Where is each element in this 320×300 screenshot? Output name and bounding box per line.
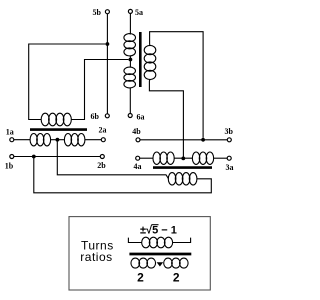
wire: T2 secondary top lead right and down to 4b-3b node (150, 32, 204, 138)
transformer T1 secondary winding left half (3 turns) (30, 134, 51, 146)
legend radical overbar (152, 224, 159, 226)
legend box frame (69, 217, 210, 290)
terminal 6a (128, 114, 132, 118)
terminal 4a (136, 156, 140, 160)
terminal 3b (227, 138, 231, 142)
svg-text:5a: 5a (135, 8, 143, 17)
svg-text:±√5 − 1: ±√5 − 1 (140, 224, 177, 236)
transformer T3 primary winding left half (3 turns) (153, 152, 174, 164)
legend primary winding (4 turns) (142, 237, 173, 248)
transformer T2 winding 5a-6a upper half (3 turns) (124, 34, 136, 56)
legend primary winding lead hooks (128, 238, 142, 243)
transformer T2 winding 5a-6a lower half (3 turns) (124, 67, 136, 88)
terminal 4b (136, 138, 140, 142)
junction: T2 winding centre tap (129, 58, 133, 62)
terminal 2b (100, 155, 104, 159)
legend secondary winding left half (3 turns) (131, 258, 156, 268)
svg-text:1b: 1b (5, 162, 14, 171)
wire: T1 secondary tap segments (50, 139, 64, 141)
svg-text:2a: 2a (99, 126, 107, 135)
wire: T1 primary right lead up to winding 5-6 centre tap (71, 60, 128, 120)
svg-text:4b: 4b (132, 127, 141, 136)
svg-text:1a: 1a (6, 128, 14, 137)
junction: T1 secondary centre tap (56, 138, 60, 142)
wire: terminal 4a to T3 primary (140, 157, 154, 159)
transformer T1 secondary winding right half (3 turns) (64, 134, 85, 146)
junction: node on 5b-6b wire (106, 42, 110, 46)
svg-text:2: 2 (173, 270, 180, 284)
transformer T1 primary winding (4 turns) (41, 113, 71, 126)
transformer T3 primary winding right half (3 turns) (192, 152, 213, 164)
junction: T3 primary centre tap (181, 157, 185, 161)
terminal 2a (101, 138, 105, 142)
transformer T3 tertiary winding (4 turns) (168, 173, 197, 185)
legend secondary winding right half (3 turns) (164, 258, 188, 268)
transformer T2 core (139, 32, 142, 87)
terminal 5a (128, 9, 132, 13)
legend core (129, 253, 191, 256)
wire: T2 winding down to terminal 6a (129, 88, 131, 114)
wire: T2 secondary bottom lead right and down to T3 centre tap (149, 79, 183, 158)
junction: node on 1b-2b wire (32, 155, 36, 159)
terminal 3a (227, 156, 231, 160)
wire: 1b to 2b (14, 156, 100, 158)
terminal 1b (10, 155, 14, 159)
wire: terminal 1a to T1 secondary (14, 139, 31, 141)
wire: T3 primary to terminal 3a (213, 157, 227, 159)
svg-text:2b: 2b (97, 161, 106, 170)
svg-text:2: 2 (137, 270, 144, 284)
wire: 1b junction down, right and up to T3 tertiary right end (34, 157, 212, 193)
terminal 1a (10, 138, 14, 142)
wire: 5b to 6b (106, 14, 108, 114)
junction: node on 4b-3b wire (201, 138, 205, 142)
transformer T3 core (153, 166, 212, 169)
svg-text:6a: 6a (137, 113, 145, 122)
svg-text:6b: 6b (91, 112, 100, 121)
svg-text:4a: 4a (134, 162, 142, 171)
transformer T2 secondary winding (4 turns) (144, 45, 156, 79)
wire: T3 primary tap segments (174, 157, 193, 159)
svg-text:ratios: ratios (80, 250, 112, 264)
transformer T1 core (30, 128, 87, 131)
svg-text:3b: 3b (224, 127, 233, 136)
svg-text:3a: 3a (226, 163, 234, 172)
wire: T1 primary left lead up to node junction (29, 44, 106, 120)
terminal 6b (105, 114, 109, 118)
wire: T1 secondary to terminal 2a (85, 139, 102, 141)
wire: T1 centre tap down and right to T3 tertiary left end (57, 140, 168, 179)
terminal 5b (105, 10, 109, 14)
legend centre-tap dot with arrow (157, 262, 164, 266)
svg-text:5b: 5b (93, 8, 102, 17)
wire: T2 tap segment (129, 56, 131, 68)
wire: 4b to 3b (140, 139, 227, 141)
wire: 5a down to T2 winding (129, 14, 132, 35)
